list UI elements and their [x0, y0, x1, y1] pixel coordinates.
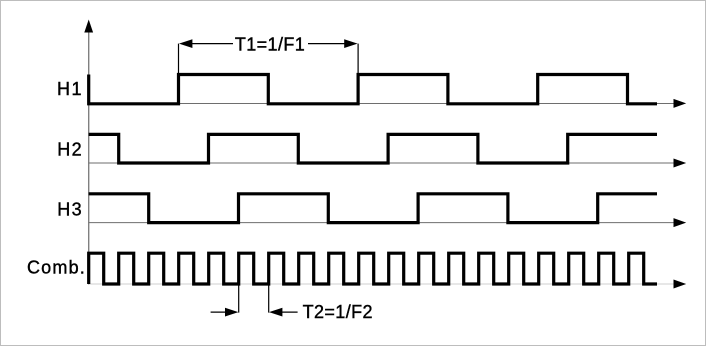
- svg-text:T1=1/F1: T1=1/F1: [235, 35, 305, 55]
- svg-text:Comb.: Comb.: [27, 257, 86, 277]
- svg-text:H2: H2: [57, 140, 83, 160]
- svg-text:H3: H3: [57, 199, 83, 219]
- svg-text:T2=1/F2: T2=1/F2: [303, 302, 373, 322]
- svg-text:H1: H1: [57, 79, 83, 99]
